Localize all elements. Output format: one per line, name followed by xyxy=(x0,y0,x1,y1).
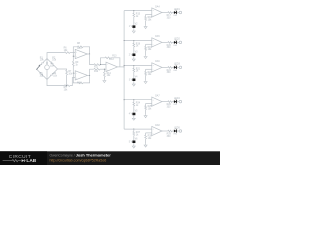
op-amp OA5 xyxy=(152,38,162,47)
wire R17 to LED1 xyxy=(172,12,174,14)
wire OA4 output to R17 xyxy=(162,12,168,14)
resistor R9 (gain) xyxy=(72,61,74,66)
wire bridge top to R6 xyxy=(47,53,64,59)
terminal node block 5 xyxy=(179,130,182,133)
battery V4 xyxy=(133,78,135,81)
wire OA1 inv to Rgain xyxy=(72,56,74,61)
wire OA8 output to R29 xyxy=(162,130,168,132)
ground battery V4 xyxy=(132,83,135,86)
op-amp OA6 xyxy=(152,63,162,72)
wire to R18 xyxy=(133,41,135,43)
wire to R14 xyxy=(103,69,105,72)
CircuitLab logo wire and resistor xyxy=(3,160,21,162)
svg-text:OA8: OA8 xyxy=(155,124,160,127)
wire LED2 to terminal xyxy=(177,41,179,43)
junction chain V4 xyxy=(133,65,134,66)
ground battery V2 xyxy=(132,30,135,33)
resistor R21 xyxy=(133,68,135,72)
wire OA2 output to R12 xyxy=(90,69,94,75)
svg-text:R13: R13 xyxy=(112,56,117,58)
svg-text:4 V: 4 V xyxy=(129,114,133,116)
resistor R17 xyxy=(168,12,172,14)
wire R25 to ground xyxy=(145,110,147,115)
wire comparator OA7 inverting input xyxy=(146,103,152,105)
wire to R28 xyxy=(145,133,147,135)
resistor R5 xyxy=(64,85,70,87)
wire to R19 xyxy=(145,44,147,46)
terminal node block 3 xyxy=(179,66,182,69)
battery V5 xyxy=(133,112,135,115)
resistor R11 xyxy=(94,64,100,66)
wire OA1 output to R11 xyxy=(90,54,94,65)
wire bus to comparator OA5 non-inverting input xyxy=(124,40,152,42)
wire bridge right vertex xyxy=(58,69,67,70)
resistor R4 (bridge bottom-right arm) xyxy=(47,69,58,80)
wire OA2 inverting to feedback xyxy=(73,73,77,83)
wire R23 to LED3 xyxy=(172,66,174,68)
wire R16 to ground xyxy=(145,21,147,26)
wire to R16 xyxy=(145,14,147,16)
wire OA7 output to R26 xyxy=(162,101,168,103)
wire to R22 xyxy=(145,69,147,71)
svg-text:OA5: OA5 xyxy=(155,35,160,38)
wire comparator OA4 inverting input xyxy=(146,13,152,15)
wire OA3 inverting to feedback xyxy=(101,58,107,65)
resistor R12 xyxy=(94,68,100,70)
svg-text:OwenComayne / Josh Thermometer: OwenComayne / Josh Thermometer xyxy=(50,153,112,158)
junction OA3 output on bus xyxy=(124,66,125,67)
svg-text:2 V: 2 V xyxy=(129,54,133,56)
wire comparator OA6 inverting input xyxy=(146,68,152,70)
ground below R14 xyxy=(103,79,106,82)
wire R21 to battery V4 xyxy=(133,72,135,78)
LED LED2 xyxy=(174,41,177,44)
LED LED5 xyxy=(174,130,177,133)
svg-text:LAB: LAB xyxy=(26,158,36,164)
LED LED4 xyxy=(174,100,177,103)
wire bridge bottom rail xyxy=(47,80,64,86)
ground R16 xyxy=(144,25,147,28)
wire Rgain to OA2 inverting xyxy=(73,66,75,73)
wire to R24 xyxy=(133,100,135,102)
wire signal bus vertical xyxy=(123,11,125,130)
wire R22 to ground xyxy=(145,75,147,80)
resistor R1 (bridge top-left arm) xyxy=(37,59,48,70)
wire comparator OA5 inverting input xyxy=(146,43,152,45)
terminal node block 4 xyxy=(179,100,182,103)
wire LED5 to terminal xyxy=(177,130,179,132)
ground battery V6 xyxy=(132,145,135,148)
wire OA1 inverting to feedback xyxy=(73,47,77,56)
junction bus block 4 xyxy=(124,99,125,100)
wire R20 to LED2 xyxy=(172,41,174,43)
CircuitLab logo background xyxy=(0,151,47,165)
footer bar xyxy=(0,151,220,165)
resistor R14 xyxy=(104,72,106,77)
wire battery V6 to ground xyxy=(133,143,135,145)
resistor R7 (bridge right leg) xyxy=(66,70,68,75)
junction chain V5 xyxy=(133,99,134,100)
wire R28 to ground xyxy=(145,139,147,144)
battery V6 xyxy=(133,140,135,143)
wire R15 to battery V2 xyxy=(133,17,135,25)
resistor R29 xyxy=(168,130,172,132)
wire comparator OA8 inverting input xyxy=(146,132,152,134)
ground R22 xyxy=(144,80,147,83)
resistor R24 xyxy=(133,102,135,106)
wire bus to comparator OA4 non-inverting input xyxy=(124,10,152,12)
wire bus to comparator OA6 non-inverting input xyxy=(124,65,152,67)
resistor R23 xyxy=(168,67,172,69)
resistor R22 xyxy=(145,71,147,75)
junction chain V2 xyxy=(133,10,134,11)
wire OA5 output to R20 xyxy=(162,41,168,43)
resistor R25 xyxy=(145,106,147,110)
resistor R18 xyxy=(133,43,135,47)
ground R28 xyxy=(144,144,147,147)
wire battery V3 to ground xyxy=(133,56,135,58)
resistor R28 xyxy=(145,135,147,139)
wire R18 to battery V3 xyxy=(133,47,135,53)
resistor R3 (bridge bottom-left arm) xyxy=(37,69,48,80)
junction chain V3 xyxy=(133,40,134,41)
wire feedback to OA3 output xyxy=(111,58,120,67)
op-amp OA2 xyxy=(75,71,87,80)
svg-text:9 V: 9 V xyxy=(50,66,54,68)
wire OA3 output to bus xyxy=(118,66,125,68)
wire bus to comparator OA8 non-inverting input xyxy=(124,128,152,130)
LED LED1 xyxy=(174,11,177,14)
junction OA1 output xyxy=(89,53,90,54)
ground battery V3 xyxy=(132,58,135,61)
wire R29 to LED5 xyxy=(172,130,174,132)
resistor R15 xyxy=(133,13,135,17)
battery V2 xyxy=(133,25,135,28)
wire R5 to op-amp OA2 xyxy=(70,78,75,86)
junction bus block 3 xyxy=(124,65,125,66)
svg-text:OA4: OA4 xyxy=(155,5,160,8)
wire to R27 xyxy=(133,129,135,131)
wire R14 to ground xyxy=(103,77,105,79)
resistor R20 xyxy=(168,42,172,44)
ground battery V5 xyxy=(132,117,135,120)
junction OA2 output xyxy=(89,75,90,76)
resistor R19 xyxy=(145,46,147,50)
svg-text:R12: R12 xyxy=(94,71,99,73)
wire LED4 to terminal xyxy=(177,101,179,103)
LED LED3 xyxy=(174,66,177,69)
wire LED1 to terminal xyxy=(177,12,179,14)
wire to R15 xyxy=(133,11,135,13)
resistor R2 (bridge top-right arm) xyxy=(47,59,58,70)
wire R27 to battery V6 xyxy=(133,136,135,141)
wire V1 to bridge bottom vertex xyxy=(46,70,48,80)
wire R26 to LED4 xyxy=(172,101,174,103)
junction bus block 2 xyxy=(124,40,125,41)
ground R19 xyxy=(144,55,147,58)
wire battery V5 to ground xyxy=(133,115,135,117)
wire R6 to op-amp OA1 xyxy=(70,52,75,54)
resistor R8 (OA1 feedback) xyxy=(77,46,83,48)
svg-text:3 V: 3 V xyxy=(129,79,133,81)
resistor R16 xyxy=(145,17,147,21)
svg-text:OA6: OA6 xyxy=(155,60,160,63)
op-amp OA4 xyxy=(152,8,162,17)
op-amp OA8 xyxy=(152,126,162,135)
resistor R6 xyxy=(64,52,70,54)
op-amp OA1 xyxy=(75,49,87,58)
wire R24 to battery V5 xyxy=(133,106,135,112)
junction bridge bottom rail xyxy=(66,85,67,86)
voltage source V1 (bridge excitation) xyxy=(45,65,50,70)
wire feedback to OA1 output xyxy=(83,47,90,54)
terminal node block 2 xyxy=(179,41,182,44)
thermistor arrow on bridge xyxy=(36,65,40,70)
wire battery V2 to ground xyxy=(133,28,135,30)
wire feedback to OA2 output xyxy=(83,75,90,83)
svg-text:http://circuitlab.com/cq6dP52R: http://circuitlab.com/cq6dP52Ra5o6 xyxy=(50,158,107,162)
wire battery V4 to ground xyxy=(133,81,135,83)
resistor R27 xyxy=(133,132,135,136)
wire R12 to OA3 non-inverting xyxy=(100,68,106,70)
wire OA1 output xyxy=(87,53,89,55)
wire to R21 xyxy=(133,66,135,68)
resistor R13 (OA3 feedback) xyxy=(105,57,111,59)
wire LED3 to terminal xyxy=(177,66,179,68)
terminal node block 1 xyxy=(179,11,182,14)
wire OA2 output xyxy=(87,74,89,76)
wire R11 to OA3 inverting xyxy=(100,64,106,66)
svg-text:5 V: 5 V xyxy=(129,141,133,143)
junction chain V6 xyxy=(133,129,134,130)
wire R19 to ground xyxy=(145,50,147,55)
resistor R26 xyxy=(168,101,172,103)
op-amp OA3 xyxy=(106,62,118,71)
wire OA6 output to R23 xyxy=(162,66,168,68)
ground R25 xyxy=(144,114,147,117)
wire R7 to bottom rail xyxy=(66,75,68,86)
wire bus to comparator OA7 non-inverting input xyxy=(124,99,152,101)
wire bridge top vertex to V1 xyxy=(46,59,48,66)
op-amp OA7 xyxy=(152,97,162,106)
svg-text:1 V: 1 V xyxy=(129,26,133,28)
CircuitLab logo diode xyxy=(22,159,25,162)
resistor R10 (OA2 feedback) xyxy=(77,82,83,84)
wire to R25 xyxy=(145,104,147,106)
svg-text:OA7: OA7 xyxy=(155,94,160,97)
battery V3 xyxy=(133,53,135,56)
